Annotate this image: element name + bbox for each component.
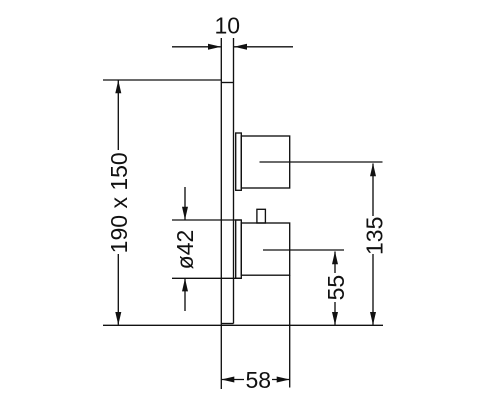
dim 58 line left segment: [221, 379, 244, 381]
arrowhead dim 135 pointing down: [370, 312, 376, 325]
arrowhead dim ø42 pointing up: [182, 278, 188, 291]
svg-text:55: 55: [323, 275, 349, 301]
arrowhead dim 190x150 pointing down: [115, 312, 121, 325]
dim 10 left arrow line: [172, 46, 221, 48]
arrowhead dim 58 pointing right: [277, 377, 290, 383]
svg-text:135: 135: [361, 217, 387, 255]
svg-text:ø42: ø42: [172, 230, 198, 270]
handle 1 leader line: [260, 161, 383, 163]
dim 55 line lower segment: [334, 302, 336, 325]
arrowhead dim ø42 pointing down: [182, 207, 188, 220]
dim 135 line lower segment: [372, 254, 374, 325]
wall plate left edge (with extensions up to dim 10 and down to dim 58): [220, 38, 222, 389]
handle 1 body: [241, 136, 289, 188]
top extension line of dim 190x150: [103, 79, 221, 81]
handle 2 body: [241, 223, 289, 275]
dim ø42 line upper segment: [184, 187, 186, 220]
handle right edge extension line to dim 58: [289, 275, 291, 387]
wall plate right edge (with extension up to dim 10): [233, 38, 235, 324]
wall plate top edge: [221, 82, 233, 84]
dim 135 line upper segment: [372, 164, 374, 217]
dim 10 right arrow line: [234, 46, 293, 48]
svg-text:10: 10: [215, 12, 241, 38]
dim ø42 lower extension line: [172, 277, 241, 279]
wall plate bottom edge: [221, 323, 233, 325]
arrowhead dim 10 pointing right: [208, 44, 221, 50]
svg-text:58: 58: [246, 367, 272, 393]
arrowhead dim 135 pointing up: [370, 163, 376, 176]
handle 2 flange: [236, 220, 242, 278]
dim 190x150 line lower segment: [117, 254, 119, 325]
dim 58 line right segment: [272, 379, 290, 381]
arrowhead dim 10 pointing left: [234, 44, 247, 50]
dim ø42 upper extension line: [172, 219, 241, 221]
handle 1 flange: [236, 133, 242, 190]
handle 2 knob: [257, 209, 266, 223]
dim 55 line upper segment: [334, 252, 336, 274]
arrowhead dim 58 pointing left: [221, 377, 234, 383]
svg-text:190 x 150: 190 x 150: [106, 152, 132, 253]
dim 190x150 line upper segment: [117, 81, 119, 151]
dim ø42 line lower segment: [184, 279, 186, 311]
handle 2 leader line: [263, 249, 344, 251]
arrowhead dim 190x150 pointing up: [115, 80, 121, 93]
arrowhead dim 55 pointing down: [332, 312, 338, 325]
arrowhead dim 55 pointing up: [332, 251, 338, 264]
bottom extension line (dim 190x150 / 135 / 55): [103, 324, 383, 326]
